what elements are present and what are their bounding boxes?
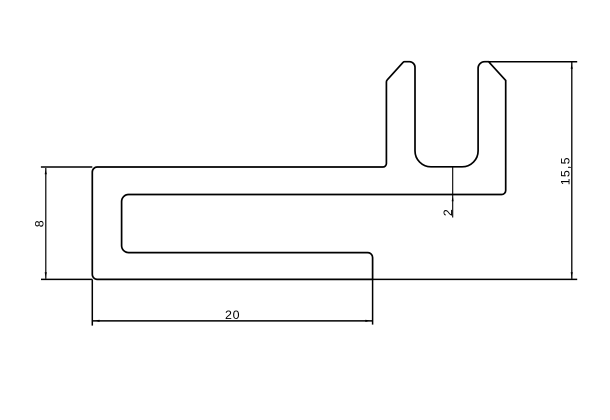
arrow dim20 right [365, 320, 372, 322]
svg-text:15,5: 15,5 [558, 156, 572, 185]
dimension line 8 [45, 168, 47, 279]
dimension line 15,5 [571, 62, 573, 278]
arrow dim20 left [93, 320, 100, 322]
extension line bottom-right (for dim 15,5) [373, 278, 578, 280]
extension line left (for dim 20) [91, 279, 93, 325]
arrow dim15,5 top [571, 62, 573, 69]
extension line bottom-left (for dim 8) [41, 278, 92, 280]
leader line dim 2 [452, 167, 454, 218]
svg-text:20: 20 [225, 308, 240, 322]
extension line right (for dim 20) [372, 279, 374, 324]
arrow dim8 top [45, 168, 47, 175]
svg-text:2: 2 [441, 209, 455, 216]
arrow dim8 bottom [45, 272, 47, 279]
extension line top-right (for dim 15,5) [489, 61, 578, 63]
svg-text:8: 8 [33, 220, 47, 228]
profile outline (extruded clamp cross-section) [92, 62, 505, 280]
arrow dim15,5 bottom [571, 272, 573, 279]
dimension line 20 [93, 320, 372, 322]
arrow dim2 up [452, 195, 454, 201]
extension line top-left (for dim 8) [41, 166, 92, 168]
